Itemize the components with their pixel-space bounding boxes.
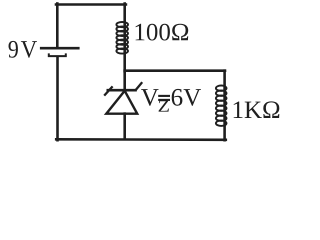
- resistor R2 1K coil: [216, 86, 227, 126]
- zener diode D1: [104, 82, 142, 114]
- wire bottom horizontal: [56, 138, 226, 141]
- wire right branch vertical (through 100 ohm): [123, 4, 126, 72]
- wire zener anode to cathode (down from node): [123, 71, 126, 90]
- wire top horizontal: [56, 3, 126, 6]
- resistor R1 100ohm coil: [116, 22, 128, 54]
- label 1K ohm: [234, 101, 280, 118]
- wire left vertical upper: [56, 4, 59, 48]
- zener anode triangle: [106, 91, 137, 114]
- wire right vertical (1K branch): [223, 71, 226, 141]
- label 9 V: [9, 41, 18, 58]
- zener bar right bend: [135, 82, 142, 90]
- label 100 ohm: [136, 24, 189, 41]
- battery B1 short plate: [49, 54, 66, 56]
- zener cathode bar: [107, 89, 137, 92]
- battery B1 long plate with lead: [41, 47, 78, 50]
- zener bar left bend: [104, 86, 112, 95]
- wire zener bottom lead: [123, 114, 126, 140]
- wire node horizontal to 1K branch: [125, 69, 225, 72]
- label Vz (equals bars drawn) 6V: [141, 89, 159, 106]
- wire left vertical lower: [56, 57, 59, 140]
